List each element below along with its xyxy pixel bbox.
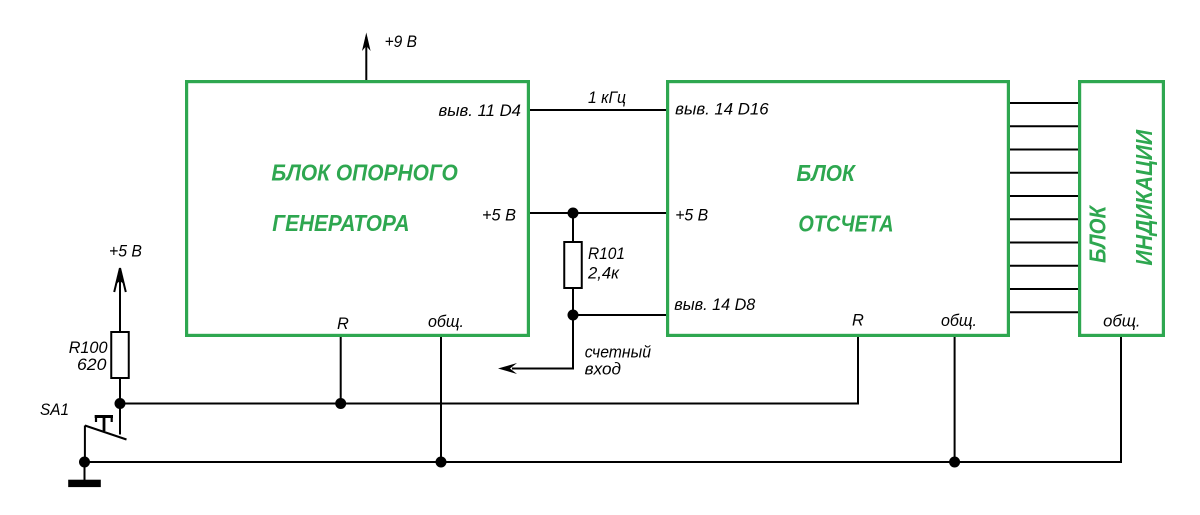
svg-text:1 кГц: 1 кГц xyxy=(588,89,626,107)
svg-text:+5 В: +5 В xyxy=(109,243,142,261)
svg-text:выв. 11 D4: выв. 11 D4 xyxy=(439,102,522,120)
svg-text:R: R xyxy=(337,315,349,333)
svg-text:БЛОК ОПОРНОГО: БЛОК ОПОРНОГО xyxy=(271,160,457,186)
svg-text:R101: R101 xyxy=(588,245,625,263)
svg-text:+5 В: +5 В xyxy=(482,207,516,225)
svg-text:выв. 14 D16: выв. 14 D16 xyxy=(675,101,769,119)
svg-text:БЛОК: БЛОК xyxy=(1085,204,1111,263)
svg-text:ИНДИКАЦИИ: ИНДИКАЦИИ xyxy=(1131,129,1157,265)
svg-text:R100: R100 xyxy=(69,339,108,357)
svg-text:вход: вход xyxy=(585,360,621,378)
svg-text:SA1: SA1 xyxy=(40,401,69,419)
svg-text:+5 В: +5 В xyxy=(675,207,708,225)
svg-text:ГЕНЕРАТОРА: ГЕНЕРАТОРА xyxy=(272,210,409,236)
svg-text:общ.: общ. xyxy=(1103,313,1140,331)
svg-text:620: 620 xyxy=(77,356,106,374)
svg-text:ОТСЧЕТА: ОТСЧЕТА xyxy=(798,211,893,237)
svg-text:общ.: общ. xyxy=(941,312,977,330)
svg-text:R: R xyxy=(852,312,864,330)
svg-text:счетный: счетный xyxy=(585,343,651,361)
svg-text:БЛОК: БЛОК xyxy=(797,160,857,186)
svg-text:2,4к: 2,4к xyxy=(587,264,620,282)
svg-text:+9 В: +9 В xyxy=(385,33,417,51)
svg-text:выв. 14 D8: выв. 14 D8 xyxy=(674,296,756,314)
svg-text:общ.: общ. xyxy=(428,313,464,331)
